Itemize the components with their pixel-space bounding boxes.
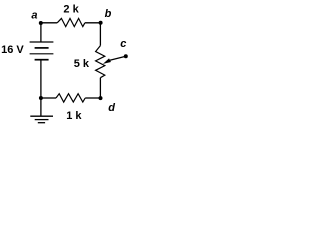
wire node d to resistor 1k [85, 97, 100, 99]
junction node (bottom left) [39, 96, 43, 100]
wire battery up to node a [40, 23, 42, 42]
svg-text:d: d [108, 102, 115, 114]
svg-text:1 k: 1 k [66, 110, 82, 122]
ground stub wire [40, 98, 42, 116]
svg-text:b: b [105, 8, 112, 20]
svg-text:a: a [31, 10, 37, 22]
wire node b down to potentiometer 5k [99, 23, 101, 46]
ground [30, 116, 53, 123]
wiper arrow of potentiometer to node c [103, 56, 126, 64]
resistor 2 k [57, 18, 85, 26]
node a [39, 21, 43, 25]
potentiometer 5 k (vertical zigzag) [96, 46, 105, 78]
wire node a to resistor 2k (top left horizontal) [41, 22, 57, 24]
svg-text:c: c [120, 38, 126, 50]
node d [99, 96, 103, 100]
wire resistor 1k to ground junction [41, 97, 56, 99]
wire resistor 2k to node b [85, 22, 101, 24]
battery V1 16 V [30, 42, 54, 60]
wire junction up to battery [40, 60, 42, 98]
wire potentiometer to node d [99, 78, 101, 98]
resistor 1 k [56, 94, 85, 102]
node c [124, 54, 128, 58]
svg-text:16 V: 16 V [1, 44, 24, 56]
svg-text:5 k: 5 k [74, 58, 90, 70]
node b [99, 21, 103, 25]
svg-text:2 k: 2 k [63, 3, 79, 15]
